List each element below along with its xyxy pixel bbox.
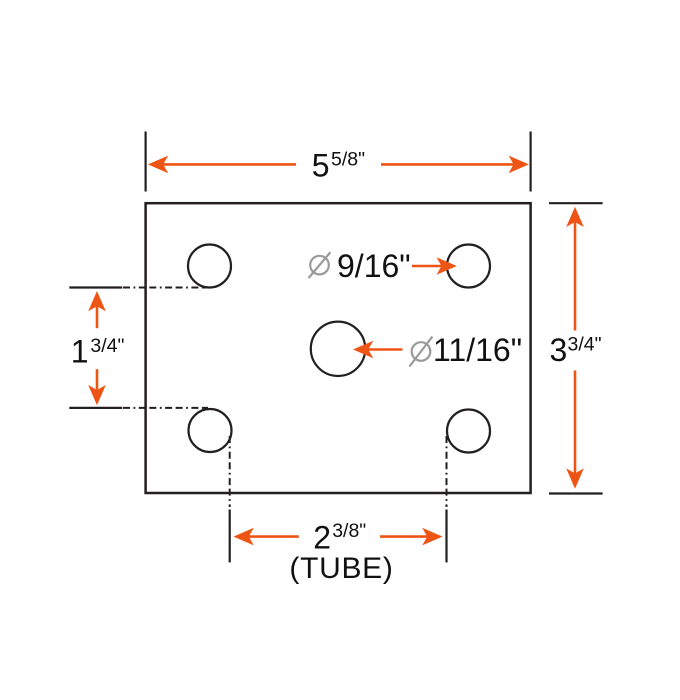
hole top-left xyxy=(188,245,231,288)
dashed drop line left (tube dim) xyxy=(229,436,231,507)
left dim arrow down xyxy=(88,385,106,405)
extension tick left (top width dim) xyxy=(145,132,147,192)
right height dimension arrow down xyxy=(566,468,584,488)
extension tick lower (left hole dim) xyxy=(69,407,122,409)
diameter symbol for 9/16 xyxy=(309,252,331,278)
hole bottom-left xyxy=(189,409,232,452)
dashed leader lower-left hole xyxy=(123,407,208,409)
plate outline xyxy=(146,203,531,493)
leader arrow to center hole xyxy=(353,341,373,359)
svg-text:3: 3 xyxy=(550,332,568,368)
svg-text:(TUBE): (TUBE) xyxy=(289,552,393,585)
tube dim arrow left xyxy=(234,528,254,546)
hole bottom-right xyxy=(447,410,490,453)
svg-text:5: 5 xyxy=(312,147,330,183)
hole top-right xyxy=(447,245,490,288)
left dim arrow up xyxy=(88,291,106,311)
diameter symbol for 11/16 xyxy=(409,337,432,367)
dashed leader upper-left hole xyxy=(123,287,208,289)
tube dim arrow right xyxy=(422,528,442,546)
svg-text:3/8": 3/8" xyxy=(332,520,366,542)
extension tick bottom (right height dim) xyxy=(549,492,603,494)
extension tick upper (left hole dim) xyxy=(69,286,122,288)
dashed drop line right (tube dim) xyxy=(446,436,448,507)
svg-text:9/16": 9/16" xyxy=(337,248,411,284)
svg-text:2: 2 xyxy=(313,520,331,556)
svg-text:11/16": 11/16" xyxy=(433,332,522,368)
tube tick right xyxy=(445,510,447,563)
svg-text:1: 1 xyxy=(71,334,89,370)
leader arrow to top-right hole xyxy=(437,257,457,275)
extension tick top (right height dim) xyxy=(549,202,603,204)
svg-text:3/4": 3/4" xyxy=(90,335,124,357)
right height dimension arrow up xyxy=(566,207,584,227)
svg-text:5/8": 5/8" xyxy=(331,149,365,171)
hole center xyxy=(311,322,365,376)
top width dimension arrow right xyxy=(509,156,529,174)
tube tick left xyxy=(229,510,231,563)
top width dimension arrow left xyxy=(148,156,168,174)
svg-text:3/4": 3/4" xyxy=(568,334,602,356)
extension tick right (top width dim) xyxy=(529,132,531,192)
